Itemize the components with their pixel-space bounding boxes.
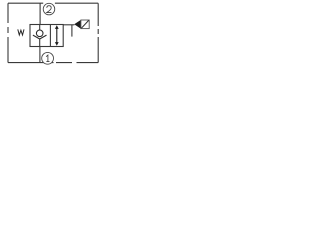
port 1 circle (42, 52, 54, 64)
envelope bottom edge (8, 62, 98, 64)
envelope left edge (7, 3, 9, 62)
port 2 circle (43, 3, 55, 15)
envelope top edge (8, 2, 98, 4)
pilot stub wire (71, 25, 73, 37)
valve body box (30, 25, 63, 47)
position divider (49, 25, 51, 47)
port 2 label (47, 6, 52, 13)
flow position double arrow (55, 25, 59, 46)
solenoid diagonal (81, 20, 88, 28)
wire valve box to port1 (39, 47, 41, 63)
spring W (18, 29, 24, 35)
check valve ball (36, 30, 43, 37)
wire valve box to solenoid (63, 24, 74, 26)
check valve inlet wire (39, 25, 41, 31)
check valve seat (33, 35, 47, 39)
wire port2 to valve box (39, 3, 41, 24)
solenoid coil box (81, 20, 89, 29)
solenoid armature triangle (74, 20, 81, 29)
envelope right edge (97, 3, 99, 62)
port 1 label (46, 55, 49, 62)
check valve outlet wire (39, 39, 41, 47)
